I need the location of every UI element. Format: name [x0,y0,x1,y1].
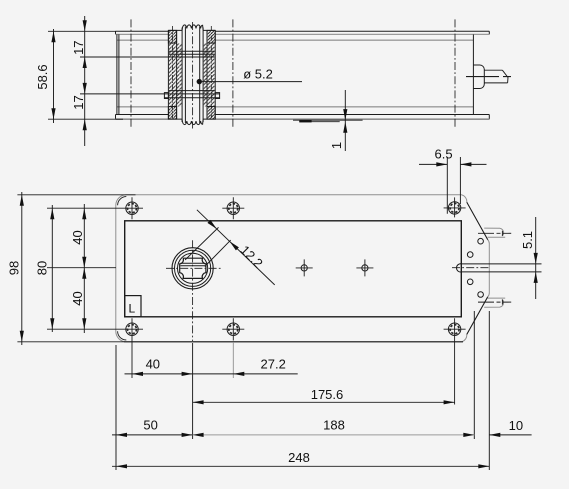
hub clamp nut blocks [164,93,168,99]
hub top and bottom caps [168,30,215,119]
hub center line vertical [192,240,194,341]
mounting hole bottom-right [444,318,466,404]
hub shaft center line [192,22,194,129]
dim 6.5 extensions [447,157,460,214]
dim 5.1 line [535,217,537,299]
hole column center line middle [232,19,234,129]
dim 12.2 tangent extensions [185,227,231,266]
anti-rotation tab under bottom plate [293,120,363,122]
dim 40 arrows [132,372,143,376]
mounting hole bottom-middle [222,318,244,378]
right side small hole 1 [478,238,484,244]
position indicator circle 2 [356,259,373,276]
dim 58.6 arrows [51,31,55,42]
dim 27.2 arrow [233,372,244,376]
universal clamp star opening [180,258,206,278]
mounting hole bottom-left [121,318,143,378]
dim 58.6 line [53,29,55,123]
housing body top edge [117,39,474,41]
lower cable tab [484,298,505,307]
dim 80 extensions [47,208,121,329]
dim 1 arrows [343,109,347,120]
hole column center line left [130,19,132,129]
dim 17 top extension [80,56,169,58]
shaft spline crown top [182,25,203,30]
dim 12.2 line [197,210,275,285]
housing left edge (double line) [117,34,119,114]
dim 58.6 extension lines [48,31,123,119]
dim 6.5 lines [419,163,487,165]
anti-rotation bracket plan view [457,264,542,272]
svg-text:175.6: 175.6 [311,387,344,402]
shaft hole dot [197,79,202,84]
dim 5.1 arrows [534,253,538,264]
dim 10 arrow [489,433,500,437]
svg-text:L: L [129,302,136,316]
bracket center line [452,267,490,269]
dim 98 arrows [20,195,24,206]
svg-text:1: 1 [329,142,344,149]
dim 175.6 line [193,401,455,403]
bottom chain extension lines [116,311,489,470]
dim 40 vertical extensions [47,267,116,269]
svg-text:40: 40 [146,356,160,371]
dim 12.2 arrows [207,220,216,229]
svg-text:58.6: 58.6 [35,64,50,89]
dim 50 line [112,434,193,436]
dim 98 extensions [17,195,135,342]
dim 175.6 arrows [193,400,204,404]
dim 10 line [489,434,531,436]
dim 50 arrows [116,433,127,437]
L marker square [125,296,141,317]
dim 80 arrows [50,208,54,219]
dim 80 line [51,205,53,332]
hole column center line right [454,19,456,127]
shaft hub outer walls [168,30,215,119]
base plate outline (gray) [116,195,490,342]
lower tab cross line [478,301,511,303]
splined shaft vertical lines [182,27,203,124]
right side small hole 2 [467,252,473,258]
clamp bolt center lines [173,26,212,118]
svg-text:248: 248 [288,450,310,465]
svg-text:6.5: 6.5 [435,147,453,162]
hub center line horizontal [166,267,223,269]
svg-text:98: 98 [6,261,21,275]
plate bottom edge black overdraw [124,341,463,343]
svg-text:10: 10 [509,418,523,433]
right side small hole 4 [478,292,484,298]
dim 17 shared line [84,16,86,146]
clamp inner edge lines [181,263,206,266]
svg-text:17: 17 [71,95,86,109]
dim 1 line [344,90,346,151]
position indicator circle 1 [296,259,313,276]
dim 17 bottom extension [80,93,164,95]
drive hub outer circle [172,248,213,289]
drive hub inner circle [178,253,208,283]
svg-text:50: 50 [143,418,157,433]
housing right edge [472,34,474,114]
svg-text:40: 40 [70,291,85,305]
plate right chamfer black overdraw [467,202,488,334]
dim 188 arrows [193,433,204,437]
drive hub middle circle [175,250,211,286]
hub interior horizontal lines upper [169,51,215,57]
dim 6.5 arrows [436,162,447,166]
leader line of diameter 5.2 [202,81,302,83]
hub interior horizontal lines lower [164,91,219,98]
dim 17 top arrows [83,20,87,31]
top mounting plate of side view [116,31,490,34]
svg-text:27.2: 27.2 [261,356,286,371]
hub hatched wall left [169,44,182,107]
dim 248 arrows [116,464,127,468]
plate corner inner arcs [118,197,127,340]
svg-text:ø 5.2: ø 5.2 [243,67,273,82]
svg-text:188: 188 [323,418,345,433]
hub corner seal blocks [168,30,176,43]
dim 17 bottom arrows [83,83,87,94]
upper cable tab [484,228,505,237]
dim 40/27.2 line [125,373,298,375]
dim 40 vertical arrows [82,208,86,219]
cable connector body [473,65,484,89]
cable lines [484,70,508,83]
dim 40 vertical line [83,204,85,333]
bottom mounting plate of side view [116,115,490,120]
right side small hole 3 [467,279,473,285]
dim 188 line (gray) [193,434,475,436]
mounting hole top-right [444,197,466,217]
TOPVIEW [116,19,512,129]
BOTTOMVIEW [116,195,542,405]
svg-text:5.1: 5.1 [520,231,535,249]
mounting hole top-middle [222,197,244,219]
svg-text:17: 17 [71,40,86,54]
svg-text:40: 40 [70,230,85,244]
housing body bottom edge [117,106,474,108]
shaft spline crown bottom [182,120,203,125]
actuator body rectangle [125,221,462,317]
hub hatched wall right [204,44,215,107]
connector center line [466,76,511,78]
dim 98 line [21,192,23,345]
dim 248 line [112,465,489,467]
mounting hole top-left [121,197,143,219]
upper tab cross line [478,232,511,234]
